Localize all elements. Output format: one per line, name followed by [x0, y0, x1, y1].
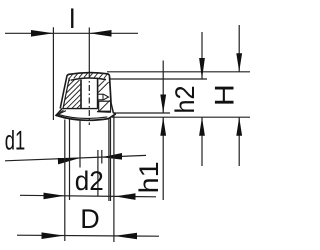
top band hatch — [69, 75, 73, 80]
arrow D right — [115, 233, 138, 240]
flange left hatch — [60, 110, 64, 114]
extension line d2 left — [69, 120, 71, 201]
inner top arc — [71, 78, 106, 80]
bump top — [98, 93, 104, 95]
extension line d1 right — [101, 150, 103, 164]
extension line d1 left — [79, 121, 81, 168]
left outer edge — [60, 77, 67, 109]
dimension line l — [5, 32, 138, 34]
section floor — [63, 108, 98, 110]
flange top front edge left — [56, 111, 66, 116]
top outer edge — [67, 73, 110, 77]
centerline — [88, 28, 90, 73]
dimension line d2 — [20, 195, 156, 197]
hatching — [58, 73, 110, 115]
arrow l right — [89, 30, 111, 37]
svg-text:H: H — [210, 84, 240, 106]
top reference line to h2 — [110, 78, 207, 80]
right outer edge — [110, 76, 112, 102]
dimension line h1 — [162, 61, 164, 114]
flange bottom edge — [56, 114, 116, 120]
right floor — [98, 100, 111, 102]
bump tip — [104, 94, 109, 100]
arrow D left — [42, 232, 65, 239]
svg-text:h1: h1 — [134, 161, 164, 193]
svg-text:d2: d2 — [75, 166, 104, 196]
flange bottom right thick — [97, 111, 111, 114]
extension line D right — [113, 115, 115, 242]
bottom reference line long — [112, 116, 250, 118]
extension stub mid — [97, 150, 99, 196]
svg-text:d1: d1 — [5, 126, 26, 156]
svg-text:h2: h2 — [170, 86, 200, 114]
hole left wall — [80, 80, 82, 109]
flange left wedge — [56, 108, 67, 118]
dimension line H — [238, 25, 240, 72]
left wall inner line — [63, 78, 69, 109]
hole right wall — [97, 79, 99, 109]
bump divider — [102, 94, 104, 100]
dimension line d1 — [5, 155, 146, 160]
flange right rim — [111, 101, 116, 114]
flange top arc (plate thickness) — [57, 114, 107, 118]
svg-text:D: D — [80, 204, 100, 234]
extension line d2 right pair — [108, 118, 110, 202]
dimension line h2 — [201, 32, 203, 79]
right band hatch — [98, 80, 104, 86]
arrow d1 left — [58, 158, 80, 164]
nut body — [56, 73, 116, 121]
extension line l left — [52, 27, 54, 120]
bump bottom — [98, 99, 104, 101]
flange right quad — [99, 101, 111, 111]
extension line D left — [64, 120, 66, 242]
svg-text:l: l — [69, 4, 75, 34]
dimension line D — [17, 235, 159, 236]
bottom reference line short (h1 top) — [114, 112, 170, 114]
arrow d1 right — [102, 153, 123, 160]
top reference line to H — [107, 71, 250, 73]
left band hatch — [68, 80, 70, 82]
arrow d2 left — [44, 193, 65, 200]
arrow l left — [31, 30, 54, 37]
arrow d2 right — [115, 193, 136, 200]
